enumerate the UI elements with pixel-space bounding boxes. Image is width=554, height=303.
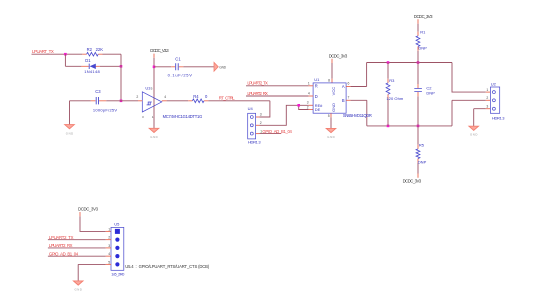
svg-text:R: R [315,84,318,89]
svg-text:HDR1 3: HDR1 3 [248,139,261,144]
svg-text:DNP: DNP [426,91,435,96]
svg-text:1: 1 [308,81,310,85]
svg-text:DCDC_3V3: DCDC_3V3 [78,207,99,212]
svg-text:2: 2 [136,95,138,99]
svg-text:GND: GND [331,103,336,112]
svg-text:GND: GND [75,287,82,291]
svg-text:2: 2 [260,121,262,125]
svg-text:5: 5 [108,260,110,264]
svg-text:DCDC_3V3: DCDC_3V3 [329,53,348,58]
svg-text:GND: GND [150,135,157,139]
svg-text:U5.4 : GPIO/LPUART_RTS/UART_: U5.4 : GPIO/LPUART_RTS/UART_CTS (DCB) [125,264,210,269]
svg-text:8: 8 [328,78,330,82]
svg-text:3: 3 [108,244,110,248]
svg-text:GPIO_AD_B1_04: GPIO_AD_B1_04 [262,129,292,134]
svg-text:HDR1 3: HDR1 3 [492,115,505,120]
svg-text:VCC: VCC [331,87,336,96]
svg-text:GND: GND [66,132,73,136]
svg-text:MC74VHC1G14DTT1G: MC74VHC1G14DTT1G [163,114,203,119]
svg-text:6: 6 [347,82,349,86]
svg-text:R4: R4 [193,94,199,99]
svg-text:DCDC_V3.3: DCDC_V3.3 [150,48,169,53]
svg-text:4: 4 [164,95,166,99]
svg-text:C3: C3 [95,89,101,94]
svg-text:SN65HVD11QDR: SN65HVD11QDR [343,113,372,118]
svg-text:120 Ohm: 120 Ohm [386,96,403,101]
svg-text:U2: U2 [491,82,497,87]
svg-text:DNP: DNP [418,46,427,51]
svg-text:1000pF/25V: 1000pF/25V [93,107,118,112]
svg-text:1: 1 [108,227,110,231]
svg-text:LPUART2_RX: LPUART2_RX [247,91,268,96]
svg-text:3: 3 [260,113,262,117]
svg-text:LPUART2_TX: LPUART2_TX [49,235,74,240]
svg-text:GND: GND [219,65,227,69]
svg-text:DCDC_3V3: DCDC_3V3 [403,178,422,183]
svg-text:U5: U5 [114,222,120,227]
svg-text:2: 2 [307,105,309,109]
svg-text:1x5_2R0: 1x5_2R0 [111,272,124,276]
svg-text:LPUART2_RX: LPUART2_RX [49,243,73,248]
svg-text:DE: DE [315,107,321,112]
svg-text:0.1uF/25V: 0.1uF/25V [168,72,193,77]
svg-text:5: 5 [328,114,330,118]
svg-text:B: B [342,98,345,103]
svg-text:2: 2 [486,96,488,100]
svg-text:U4: U4 [248,106,254,111]
svg-text:GPIO_AD_B1_04: GPIO_AD_B1_04 [49,251,79,256]
svg-text:LPUART2_TX: LPUART2_TX [247,81,268,86]
svg-text:2: 2 [108,236,110,240]
svg-text:D: D [315,94,318,99]
svg-text:4: 4 [108,252,110,256]
svg-text:U1: U1 [314,77,320,82]
svg-text:LPUART_TX: LPUART_TX [32,49,54,54]
svg-text:1N4148: 1N4148 [84,69,100,74]
svg-text:DNP: DNP [418,159,427,164]
svg-text:GND: GND [470,133,477,137]
svg-text:R2: R2 [87,47,93,52]
svg-text:22K: 22K [96,47,104,52]
svg-text:3: 3 [307,100,309,104]
svg-text:7: 7 [347,96,349,100]
svg-text:3: 3 [486,105,488,109]
svg-text:A: A [342,84,345,89]
svg-text:DCDC_3V3: DCDC_3V3 [414,14,433,19]
svg-text:GND: GND [327,135,334,139]
svg-text:R3: R3 [389,78,395,83]
svg-text:R5: R5 [419,142,425,147]
svg-text:4: 4 [308,92,310,96]
svg-text:D1: D1 [85,58,91,63]
svg-text:RT_CTRL: RT_CTRL [219,95,236,100]
svg-text:C1: C1 [175,56,181,61]
svg-text:R1: R1 [420,30,426,35]
svg-text:1: 1 [486,88,488,92]
